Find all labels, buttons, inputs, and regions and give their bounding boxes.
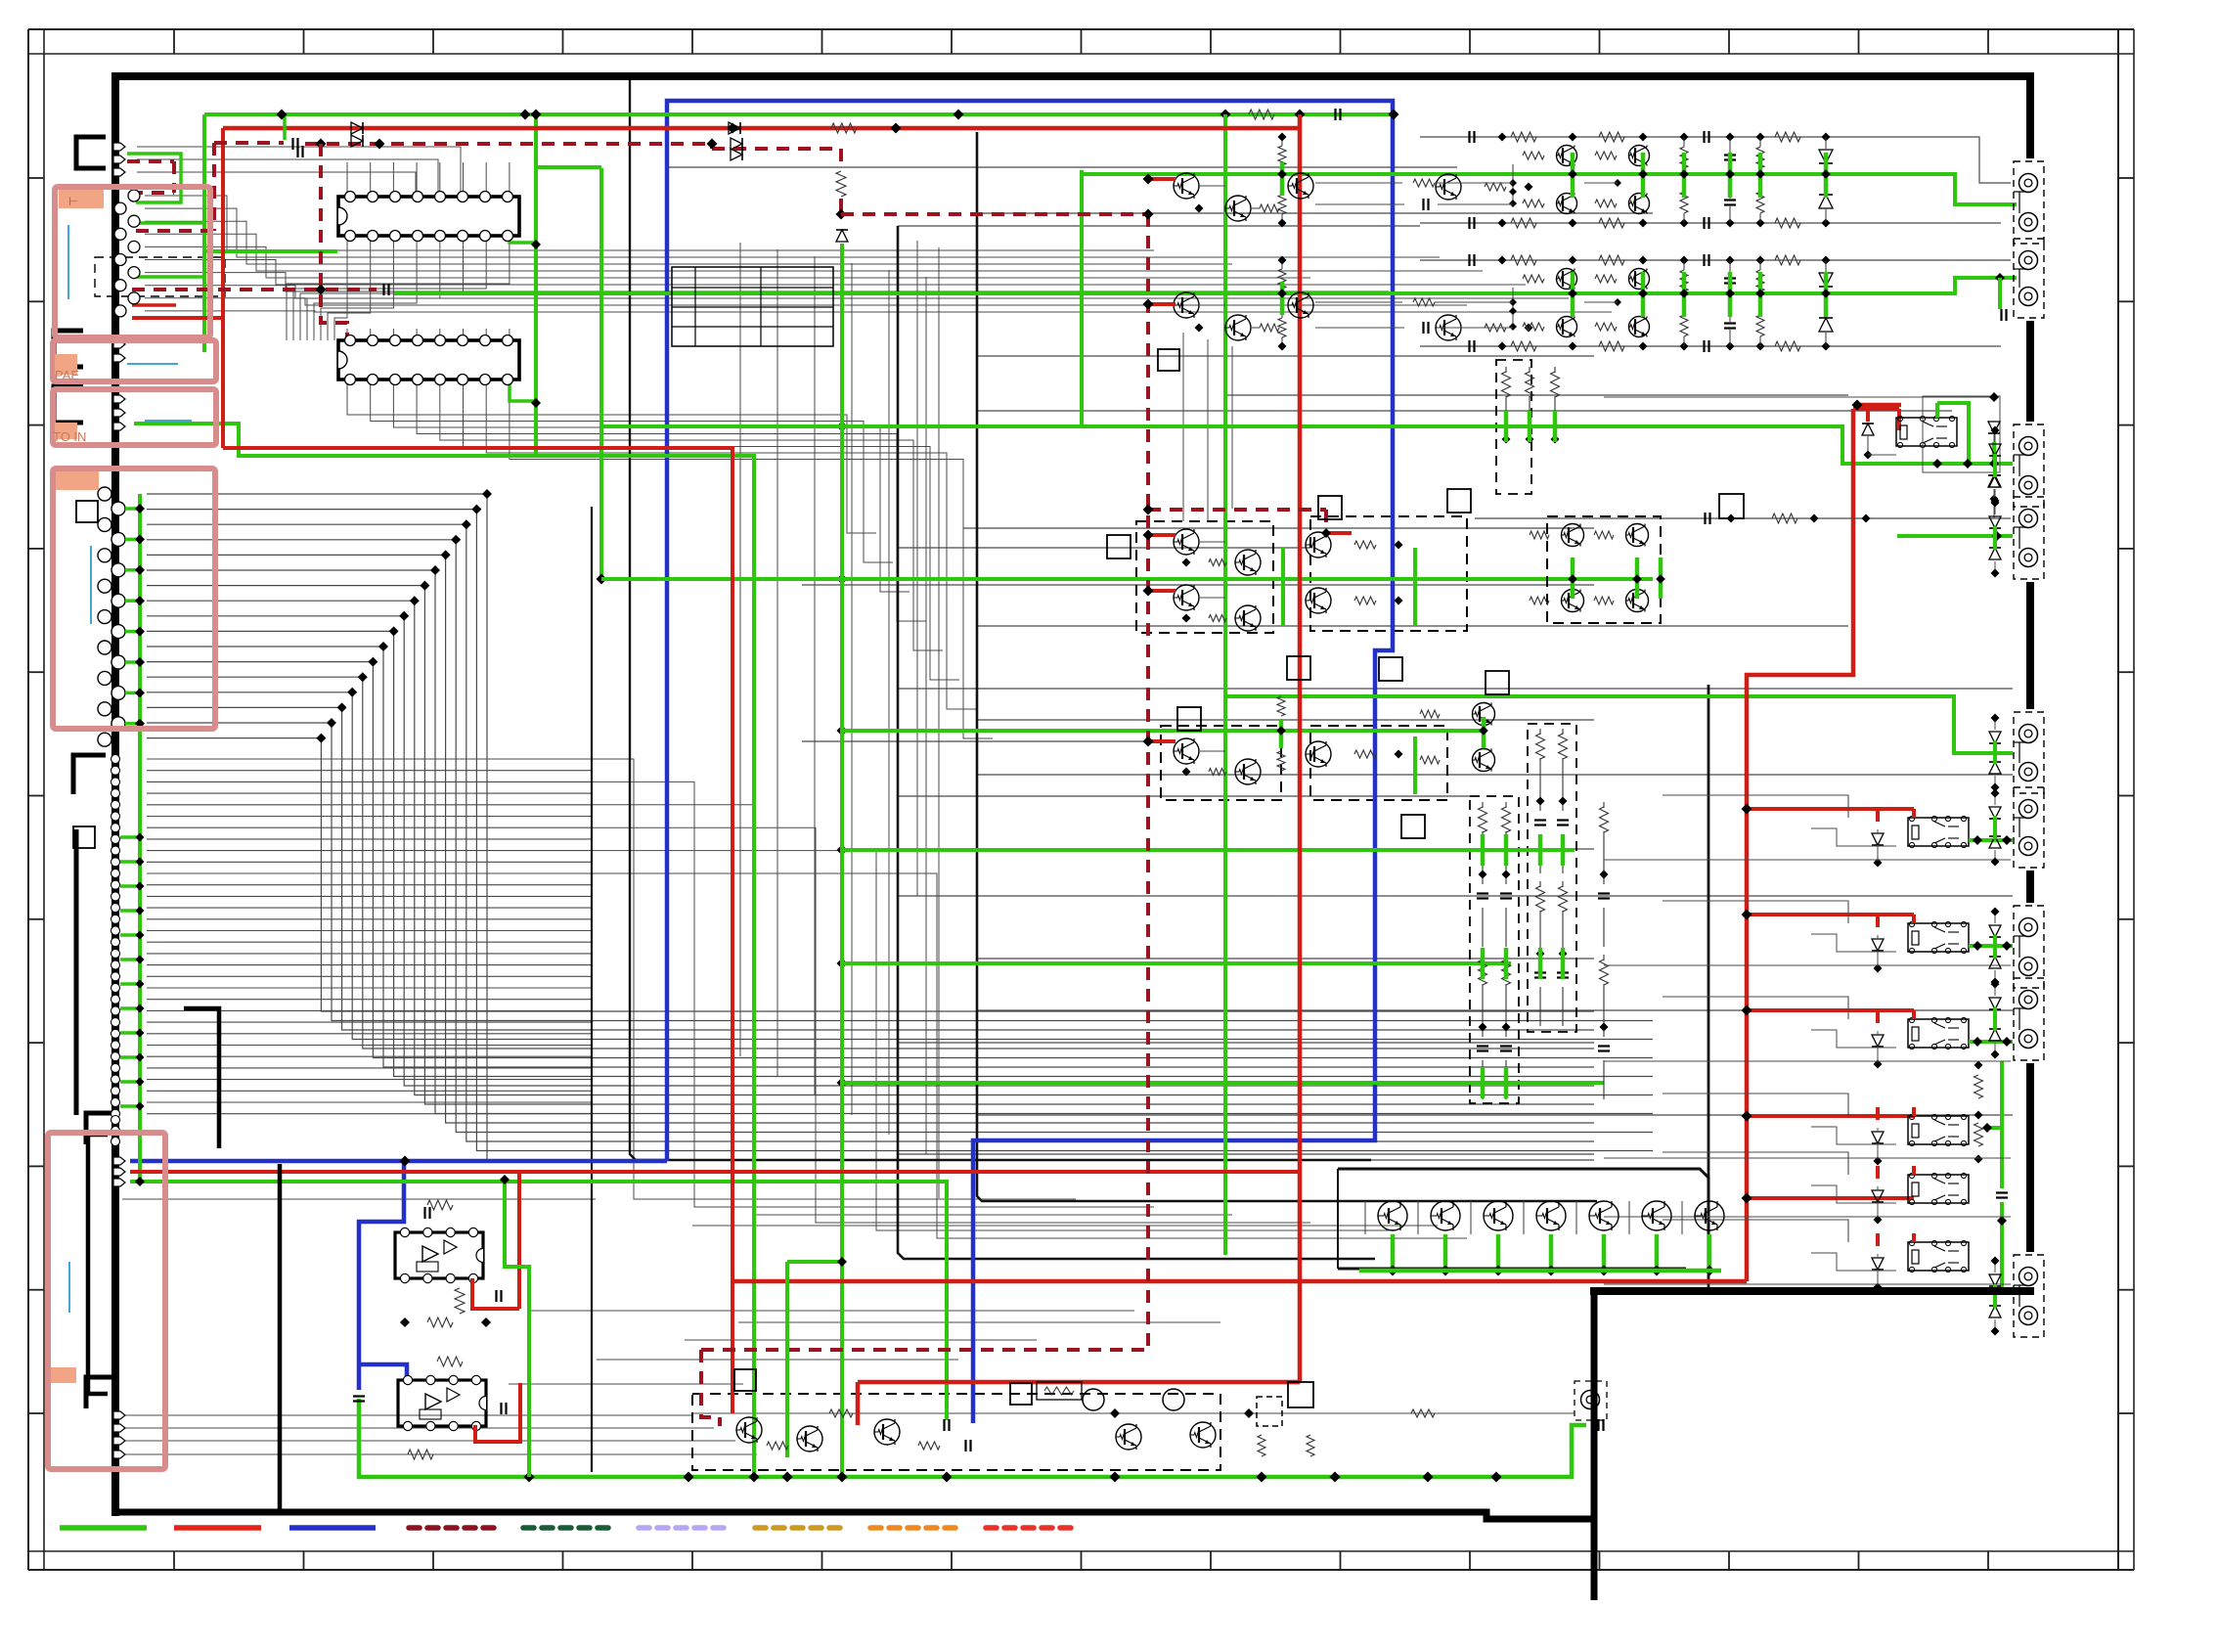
highlight box P4 <box>53 469 215 729</box>
junction <box>1991 783 2000 792</box>
wire green <box>125 568 140 572</box>
connector pin <box>111 655 125 669</box>
resistor R <box>1258 1435 1265 1456</box>
wire <box>147 861 592 863</box>
wire red <box>1912 809 1916 818</box>
wire <box>592 827 1310 1223</box>
IC U1 <box>338 197 519 236</box>
junction <box>1874 1283 1883 1292</box>
connector bracket <box>73 755 106 794</box>
wire <box>1231 346 1233 509</box>
wire dark-red dashed <box>132 288 377 291</box>
wire <box>147 792 592 794</box>
junction <box>837 1472 848 1483</box>
connector pin <box>111 1109 120 1118</box>
wire green <box>120 835 140 839</box>
wire <box>416 162 418 197</box>
connector jack pair <box>2014 978 2044 1060</box>
junction <box>1991 858 2000 867</box>
connector pin <box>98 733 111 746</box>
amplifier channel row 2 <box>1420 259 1941 261</box>
wire <box>977 1009 2013 1011</box>
wire <box>147 826 592 828</box>
wire <box>898 1042 1594 1044</box>
connector jack pair <box>2014 1255 2044 1337</box>
wire green <box>842 961 1511 965</box>
junction <box>954 110 964 120</box>
wire red <box>1876 1010 1880 1023</box>
wire <box>145 208 1440 257</box>
capacitor C4 <box>423 1207 425 1219</box>
legend sample <box>289 1525 376 1531</box>
wire <box>1417 1201 1419 1234</box>
connector pin <box>111 1006 120 1015</box>
wire green <box>130 1182 947 1420</box>
wire <box>597 1359 958 1361</box>
junction <box>1991 499 2000 508</box>
diode D <box>1862 424 1874 435</box>
wire green <box>1225 696 2013 753</box>
wire <box>1663 1152 1848 1175</box>
wire dark-red dashed <box>839 199 843 214</box>
connector pin <box>128 241 140 252</box>
wire <box>147 723 1653 1021</box>
wire <box>977 774 2013 776</box>
wire <box>898 895 2013 897</box>
junction <box>1389 110 1399 120</box>
wire red <box>472 1278 519 1309</box>
wire red <box>223 126 1300 131</box>
connector pin <box>98 487 111 501</box>
component column <box>1559 734 1568 759</box>
wire green <box>1553 411 1558 442</box>
wire red <box>1876 1233 1880 1246</box>
junction <box>281 113 283 115</box>
resistor R <box>1974 1075 1983 1098</box>
wire green <box>394 278 2000 293</box>
connector pin <box>113 1424 125 1432</box>
junction <box>135 688 145 697</box>
junction <box>837 845 848 856</box>
relay RY <box>1908 1116 1969 1144</box>
wire <box>147 631 1653 1076</box>
junction <box>1991 714 2000 723</box>
wire <box>1663 901 1848 923</box>
wire dark-red dashed <box>701 1350 720 1426</box>
connector pin <box>128 190 140 201</box>
wire dark-red dashed <box>305 142 712 146</box>
connector pin <box>98 610 111 624</box>
junction <box>1973 835 1982 845</box>
wire <box>485 329 487 340</box>
junction <box>707 139 718 150</box>
wire <box>147 494 1594 1160</box>
wire green <box>2000 1061 2004 1188</box>
transistor group row5 <box>1473 703 1495 726</box>
svg-text:⊢: ⊢ <box>68 195 78 208</box>
connector pin <box>113 340 125 348</box>
wire green <box>125 722 140 726</box>
wire red <box>1857 403 1901 408</box>
junction <box>1874 1157 1883 1166</box>
wire <box>1811 1253 1896 1271</box>
relay RY1 <box>1896 418 1957 446</box>
connector pin <box>111 1138 120 1146</box>
component box <box>1177 707 1201 731</box>
schematic border right <box>2026 321 2034 422</box>
wire <box>977 212 1653 214</box>
wire green <box>840 244 844 1477</box>
diode D <box>1989 1029 2001 1041</box>
wire green <box>599 168 603 579</box>
transistor Q <box>1306 741 1331 767</box>
transistor group row3-4 <box>1547 516 1661 623</box>
component box <box>1010 1383 1032 1405</box>
connector pin <box>114 254 126 266</box>
junction <box>1864 451 1873 460</box>
wire green <box>2000 276 2017 280</box>
wire dark-red dashed <box>1146 214 1150 1350</box>
connector jack pair <box>2014 239 2044 318</box>
wire green <box>134 424 754 1474</box>
wire green <box>1937 403 1969 464</box>
wire <box>1523 1201 1525 1234</box>
cyan mark <box>68 1262 70 1313</box>
connector pin <box>113 168 125 176</box>
connector pin <box>111 502 125 515</box>
component box <box>1107 535 1131 558</box>
resistor R <box>1974 1123 1983 1146</box>
wire <box>1663 795 1848 818</box>
legend sample <box>523 1525 610 1531</box>
wire <box>898 795 1470 797</box>
junction <box>136 858 145 867</box>
junction <box>837 574 848 585</box>
wire dark-red dashed <box>701 1348 1148 1352</box>
wire <box>1994 718 1996 730</box>
connector pin <box>111 766 120 775</box>
transistor Q row <box>1536 1201 1566 1230</box>
bus line <box>591 507 593 1472</box>
wire green <box>120 982 140 986</box>
wire <box>463 162 465 197</box>
relay RY <box>1908 1175 1969 1203</box>
junction <box>1991 497 2000 506</box>
connector pin <box>111 1098 120 1107</box>
wire green <box>1993 816 1997 839</box>
junction <box>597 574 607 585</box>
junction <box>135 1177 145 1186</box>
wire green <box>1538 948 1543 979</box>
wire red <box>1747 1008 1914 1012</box>
wire green <box>1481 948 1486 979</box>
transistor Q <box>1436 315 1461 340</box>
wire green <box>1538 834 1543 866</box>
junction <box>1963 459 1973 469</box>
wire <box>147 616 1594 1086</box>
junction <box>1441 1266 1451 1276</box>
junction <box>316 285 327 295</box>
connector pin <box>98 549 111 562</box>
wire red <box>1866 405 1870 422</box>
connector pin <box>111 995 120 1004</box>
wire red <box>1148 739 1176 743</box>
wire <box>145 260 1526 286</box>
wire <box>1811 1185 1896 1203</box>
junction <box>400 1156 411 1167</box>
bus line <box>977 132 1597 1201</box>
transistor Q5 group <box>1174 738 1199 764</box>
wire green <box>120 958 140 961</box>
wire <box>147 1090 592 1092</box>
junction <box>1220 110 1231 120</box>
wire green <box>1413 737 1417 794</box>
junction <box>837 1078 848 1089</box>
junction <box>1862 514 1871 523</box>
wire red <box>1148 302 1176 306</box>
connector pin <box>111 915 120 923</box>
resistor R <box>918 1442 940 1450</box>
schematic border right <box>2026 871 2034 903</box>
wire green <box>120 884 140 888</box>
resistor R <box>1307 1435 1314 1456</box>
capacitor C <box>943 1419 945 1431</box>
wire <box>739 243 741 1056</box>
cable line <box>278 1164 283 1512</box>
junction <box>277 110 288 120</box>
component column <box>1502 372 1511 397</box>
wire <box>1663 997 1848 1019</box>
junction <box>1982 1123 1992 1133</box>
connector pin <box>111 972 120 981</box>
wire <box>122 1198 596 1200</box>
junction <box>1110 1472 1121 1483</box>
wire green <box>1504 411 1509 442</box>
junction <box>400 1317 410 1327</box>
junction <box>1973 941 1982 951</box>
connector pin <box>111 1075 120 1084</box>
junction <box>1546 1266 1557 1276</box>
wire <box>1604 859 2011 861</box>
wire <box>393 380 909 592</box>
wire green <box>842 729 1483 733</box>
wire green <box>127 154 181 202</box>
junction <box>136 907 145 915</box>
wire <box>392 162 394 197</box>
junction <box>728 123 738 134</box>
legend sample <box>409 1525 496 1531</box>
component column <box>1502 807 1511 832</box>
capacitor C <box>291 138 293 150</box>
junction <box>1995 273 2005 283</box>
wire green <box>1504 834 1509 866</box>
wire <box>145 298 1467 305</box>
wire <box>334 236 347 340</box>
transistor Q2 group <box>1174 292 1199 318</box>
junction <box>1491 1472 1502 1483</box>
junction <box>136 882 145 891</box>
wire <box>347 380 876 533</box>
wire green <box>1504 948 1509 979</box>
resistor block <box>1037 1382 1082 1400</box>
junction <box>837 422 848 432</box>
wire <box>977 719 1594 721</box>
wire <box>147 987 592 989</box>
wire <box>509 162 510 197</box>
connector pin <box>113 1437 125 1445</box>
junction <box>135 534 145 544</box>
component column <box>1551 372 1560 397</box>
junction <box>836 209 847 220</box>
wire <box>147 662 1653 1058</box>
wire <box>147 570 1653 1114</box>
junction <box>891 123 902 134</box>
connector pin <box>111 1087 120 1095</box>
resistor R <box>767 1442 788 1450</box>
wire dark-red dashed <box>1324 510 1328 533</box>
wire red <box>1747 807 1914 811</box>
wire <box>439 162 441 197</box>
transistor Q1 group <box>1174 173 1199 199</box>
highlight box P2 <box>53 340 216 381</box>
junction <box>1989 392 1999 402</box>
junction <box>837 959 848 969</box>
wire dark-red dashed <box>1148 508 1326 512</box>
wire <box>314 236 417 340</box>
wire <box>1877 1254 1879 1258</box>
wire <box>1877 1186 1879 1190</box>
diode D <box>836 230 848 242</box>
connector pin <box>111 926 120 935</box>
wire red <box>1326 531 1352 535</box>
relay RY <box>1908 923 1969 952</box>
junction <box>481 1317 491 1327</box>
capacitor C7 <box>500 1403 502 1414</box>
wire red <box>1912 1233 1916 1242</box>
connector bracket <box>86 1377 115 1408</box>
wire green <box>787 1260 842 1264</box>
highlight box P1 <box>55 187 210 337</box>
junction <box>136 1078 145 1087</box>
connector pin <box>111 858 120 867</box>
component box <box>1158 349 1179 371</box>
junction <box>684 1472 694 1483</box>
wire green <box>120 909 140 913</box>
wire <box>977 410 1952 412</box>
connector pin <box>111 949 120 958</box>
wire green <box>125 599 140 603</box>
connector bracket <box>54 386 83 423</box>
diode D <box>731 138 742 150</box>
wire <box>147 524 1594 1141</box>
connector pin <box>111 789 120 798</box>
capacitor C <box>964 1440 966 1451</box>
connector pin <box>113 354 125 362</box>
diode D <box>1989 516 2001 528</box>
relay RY <box>1908 818 1969 846</box>
wire dark-red dashed <box>136 229 214 233</box>
connector pin <box>111 938 120 947</box>
diode D <box>1989 475 2001 487</box>
junction <box>1991 789 2000 798</box>
wire <box>346 162 348 197</box>
wire red <box>1148 589 1176 593</box>
wire <box>1993 434 1995 442</box>
wire blue <box>359 1364 407 1377</box>
wire <box>370 162 372 197</box>
connector pin <box>113 143 125 151</box>
wire red <box>1747 913 1914 916</box>
wire <box>1994 984 1996 996</box>
wire red <box>856 1382 861 1425</box>
wire <box>147 601 1653 1094</box>
connector jack <box>1581 1391 1600 1409</box>
connector pin <box>111 904 120 913</box>
connector pin <box>111 1018 120 1027</box>
wire <box>977 355 1594 357</box>
capacitor C5 <box>495 1290 497 1302</box>
wire <box>147 1055 592 1057</box>
diode D <box>731 149 742 160</box>
junction <box>1244 1408 1254 1418</box>
diode D <box>1989 1306 2001 1317</box>
label fill <box>56 471 99 490</box>
junction <box>1143 505 1154 515</box>
dashed group box <box>1257 1397 1282 1426</box>
component box <box>1719 494 1744 518</box>
wire <box>963 527 1594 529</box>
connector jack pair <box>2014 497 2044 579</box>
resistor R5 <box>427 1317 453 1327</box>
op-amp U3 <box>395 1232 483 1278</box>
wire red <box>732 1279 1747 1284</box>
wire <box>509 1383 743 1385</box>
wire green <box>1080 170 1084 426</box>
connector pin <box>111 686 125 699</box>
connector pin <box>111 1127 120 1136</box>
wire green <box>202 114 206 352</box>
wire <box>692 1225 1438 1227</box>
wire green <box>125 660 140 664</box>
drawing frame ruler <box>27 29 29 1570</box>
wire green <box>1504 1067 1509 1098</box>
wire dark-red dashed <box>710 144 714 149</box>
wire green <box>1969 1040 2013 1044</box>
wire green <box>534 114 538 456</box>
wire red <box>132 303 176 307</box>
wire dark-red dashed <box>321 144 347 339</box>
label fill <box>55 423 77 439</box>
wire <box>147 953 592 955</box>
lamp L2 <box>1163 1389 1184 1410</box>
junction <box>749 1472 760 1483</box>
junction <box>1991 1327 2000 1336</box>
wire <box>1811 934 1896 952</box>
connector bracket <box>86 1113 115 1144</box>
wire dark-red dashed <box>839 149 843 168</box>
transistor Q psu <box>874 1419 900 1445</box>
junction <box>136 1005 145 1013</box>
junction <box>136 1102 145 1111</box>
wire red <box>1912 915 1916 923</box>
connector bracket <box>74 829 79 1115</box>
junction <box>1493 1266 1504 1276</box>
wire red <box>1148 177 1176 181</box>
enclosure <box>1338 1268 1686 1271</box>
wire <box>925 277 927 1154</box>
wire green <box>1359 1269 1721 1273</box>
junction <box>136 1053 145 1062</box>
